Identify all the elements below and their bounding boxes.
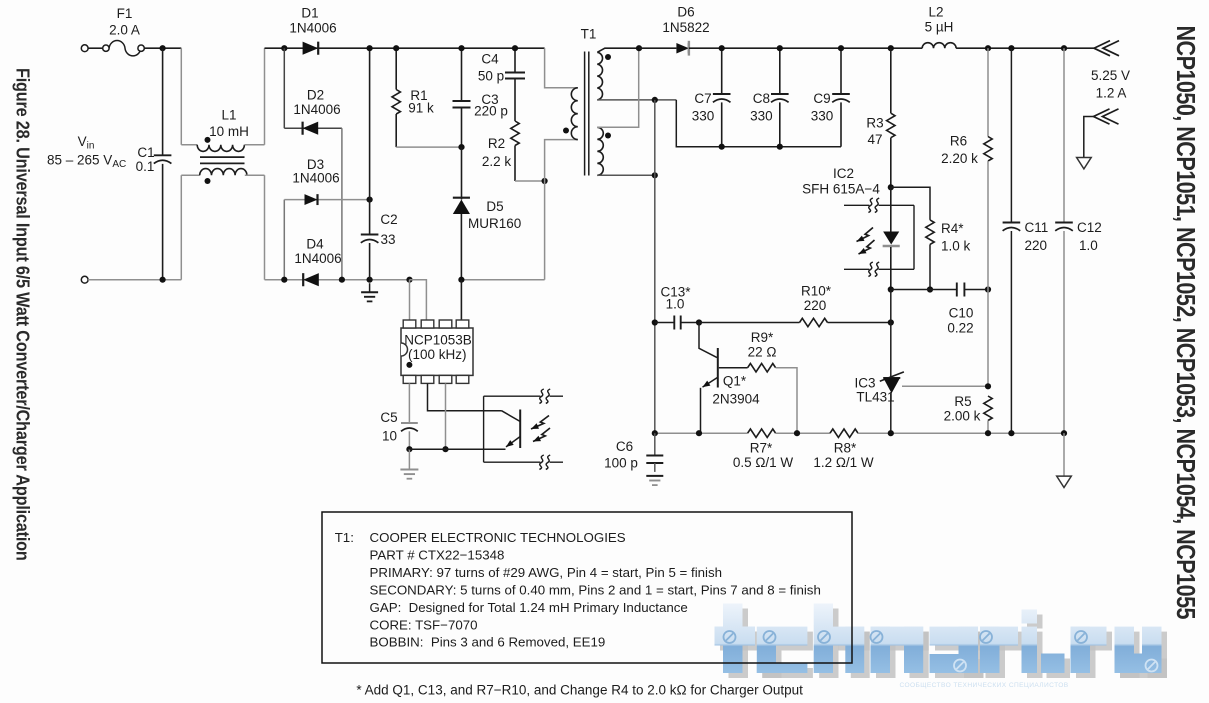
svg-text:5.25 V: 5.25 V (1091, 68, 1130, 83)
resistor R4* 1.0k (926, 220, 934, 244)
svg-text:R7*: R7* (750, 440, 773, 455)
svg-text:Q1*: Q1* (723, 374, 747, 389)
node bottom rail at Q1 emitter (696, 430, 702, 436)
wire jog to IC pin2 (410, 280, 427, 320)
svg-text:220: 220 (804, 298, 827, 313)
opto package edge left vertical (transistor side) (483, 396, 485, 462)
wire secondary top rail to D6 (639, 47, 676, 49)
wire input bottom to L1 lower-left (88, 279, 181, 281)
wire bus+ rail corner down to primary top (545, 48, 578, 88)
node C13/Q1 collector/R10 (696, 319, 702, 325)
svg-text:C6: C6 (616, 439, 633, 454)
pin 1 dot NCP1053B (406, 362, 412, 368)
wire R9 right down to bottom rail (776, 368, 797, 434)
svg-text:5 µH: 5 µH (925, 20, 954, 35)
svg-text:1N4006: 1N4006 (289, 21, 336, 36)
wire drain row to D5 anode and IC drain pin (461, 279, 544, 281)
node AC2 at D3 branch (281, 277, 287, 283)
svg-text:R9*: R9* (751, 330, 774, 345)
wire Q1 emitter down to bottom rail (700, 388, 702, 433)
wire Q1 base to R9 (719, 367, 748, 369)
node: C1 bottom junction (160, 277, 166, 283)
diode D6 1N5822 (676, 43, 689, 54)
svg-text:C10: C10 (949, 306, 974, 321)
node clamp (R1/C3/D5) (458, 144, 464, 150)
node bottom rail at TL431 (888, 430, 894, 436)
svg-text:1N4006: 1N4006 (294, 251, 341, 266)
svg-text:330: 330 (692, 108, 715, 123)
svg-text:MUR160: MUR160 (468, 216, 521, 231)
fuse F1 (103, 45, 109, 51)
wire rail R8 to output return (858, 432, 1064, 434)
wire return down to chassis triangle (1063, 433, 1065, 476)
svg-text:IC2: IC2 (833, 166, 854, 181)
IC pins top (403, 320, 416, 328)
node C12 top (1061, 45, 1067, 51)
wire D2 row (284, 127, 342, 129)
svg-text:2.0 A: 2.0 A (109, 23, 140, 38)
svg-text:10: 10 (382, 429, 397, 444)
node C2 top on bus+ rail (367, 45, 373, 51)
node C3 top on bus+ (458, 45, 464, 51)
svg-text:NCP1053B: NCP1053B (404, 332, 472, 347)
wire L1 upper-right up to AC1 rail (264, 175, 266, 280)
capacitor C9 330 (840, 48, 842, 94)
wire R10 row (699, 322, 800, 324)
node C11 top (1008, 45, 1014, 51)
svg-text:33: 33 (380, 232, 395, 247)
chassis return triangle (floating) (1077, 158, 1092, 169)
node bottom rail at R9 branch (794, 430, 800, 436)
input terminal bottom (neutral) (81, 276, 88, 283)
ground (C6) (646, 475, 663, 477)
svg-text:D4: D4 (306, 237, 324, 252)
svg-text:10 mH: 10 mH (209, 124, 249, 139)
svg-text:100 p: 100 p (604, 456, 638, 471)
opto collector diagonal (502, 411, 521, 422)
node R10 right on x891 vertical (888, 319, 894, 325)
svg-text:F1: F1 (117, 6, 133, 21)
transformer T1 secondary winding 2 (597, 127, 603, 175)
svg-text:50 p: 50 p (478, 69, 504, 84)
resistor R9* 22 ohm (748, 364, 776, 372)
wire bottom AC2/minus row with D4 (265, 279, 410, 281)
node minus rail at IC pin1 (406, 277, 412, 283)
resistor R2 2.2k (511, 121, 519, 145)
light arrows IC2 LED (857, 228, 874, 242)
node C9 top (838, 45, 844, 51)
opto package edge top (LED side) (844, 204, 914, 206)
svg-text:TL431: TL431 (856, 390, 894, 405)
capacitor C2 bus electrolytic (369, 48, 371, 234)
node: AC line / C1 top junction (160, 45, 166, 51)
node R3 bottom / opto anode (888, 184, 894, 190)
wire sec1 bottom to return node (597, 99, 676, 101)
svg-text:T1: T1 (581, 27, 597, 42)
node sec tops on rail (636, 45, 642, 51)
svg-text:2N3904: 2N3904 (712, 391, 760, 406)
wire R1 bottom to clamp node (396, 146, 461, 148)
wire IC pin to emitter row (445, 383, 447, 449)
svg-text:R8*: R8* (834, 440, 857, 455)
svg-text:0.22: 0.22 (947, 321, 973, 336)
svg-text:SECONDARY: 5 turns of 0.40 mm,: SECONDARY: 5 turns of 0.40 mm, Pins 2 an… (370, 582, 821, 597)
inductor L1 common-mode choke upper winding (181, 144, 197, 146)
svg-text:COOPER ELECTRONIC TECHNOLOGIES: COOPER ELECTRONIC TECHNOLOGIES (370, 530, 626, 545)
svg-text:C4: C4 (481, 52, 499, 67)
inductor L1 core lines (200, 156, 245, 158)
wire fuse to C1 node (144, 47, 181, 49)
svg-text:1N4006: 1N4006 (293, 102, 340, 117)
inductor L2 5uH (922, 43, 956, 49)
svg-text:D5: D5 (486, 199, 503, 214)
capacitor C1 (162, 48, 164, 155)
diode D4 1N4006 (303, 273, 319, 286)
capacitor C8 330 (779, 48, 781, 94)
svg-text:D6: D6 (677, 5, 694, 20)
opto package edge right vertical (913, 205, 915, 269)
node D3 cathode at C2 bus vertical (367, 197, 373, 203)
svg-text:NCP1050, NCP1051, NCP1052, NCP: NCP1050, NCP1051, NCP1052, NCP1053, NCP1… (1170, 26, 1199, 620)
phase dot L1 upper (205, 137, 211, 143)
wire C10 row (891, 289, 957, 291)
wire emitter row (409, 448, 505, 450)
capacitor C4 50p (514, 48, 516, 72)
transformer T1 core (584, 52, 586, 176)
svg-text:220 p: 220 p (474, 104, 508, 119)
node LED cathode row at x891 (888, 286, 894, 292)
opto package edge bottom (LED side) (844, 268, 914, 270)
wire L2 to output terminal (956, 47, 1094, 49)
svg-text:D1: D1 (301, 6, 318, 21)
svg-text:R3: R3 (866, 116, 883, 131)
wire input to fuse (88, 47, 103, 49)
wire down to L1 upper-left (180, 48, 182, 145)
svg-text:PRIMARY: 97 turns of #29 AWG,: PRIMARY: 97 turns of #29 AWG, Pin 4 = st… (370, 565, 723, 580)
transistor Q1 emitter with arrow (703, 377, 718, 387)
wire drain down to IC pin4 (460, 280, 462, 320)
transistor Q1 base bar (717, 348, 719, 388)
svg-text:22 Ω: 22 Ω (748, 344, 777, 359)
resistor R7* 0.5 ohm (748, 429, 776, 437)
node R1 top on bus+ (393, 45, 399, 51)
transformer T1 secondary winding 1 (597, 52, 602, 100)
IC3 TL431 cathode bar and flag (883, 377, 900, 379)
svg-text:C11: C11 (1025, 220, 1049, 235)
svg-text:R2: R2 (488, 136, 505, 151)
phase dot T1 secondary 1 (605, 54, 611, 60)
wire IC pin to C5 (408, 383, 410, 423)
wire R3 node to R4 top (891, 187, 930, 220)
svg-text:1.0: 1.0 (666, 297, 685, 312)
chassis return triangle (bottom) (1057, 476, 1072, 487)
svg-text:C7: C7 (694, 91, 711, 106)
svg-text:0.1: 0.1 (136, 159, 155, 174)
node C13 left on return vertical (652, 319, 658, 325)
svg-text:C1: C1 (137, 145, 154, 160)
T1 specification box (322, 512, 852, 663)
capacitor C5 10 (401, 422, 418, 424)
svg-text:1.0: 1.0 (1079, 238, 1098, 253)
wire top rail AC1 to D1 and bus+ (265, 47, 545, 49)
svg-text:SFH 615A−4: SFH 615A−4 (802, 182, 880, 197)
node bottom rail at return vertical (652, 430, 658, 436)
capacitor C3 220p (461, 48, 463, 101)
wire up to L1 lower-left (180, 175, 182, 280)
opto package edge bottom (transistor side) (484, 461, 563, 463)
capacitor C7 330 (721, 48, 723, 94)
svg-text:1.0 k: 1.0 k (941, 239, 971, 254)
svg-text:C9: C9 (813, 91, 830, 106)
resistor R10* 220 (800, 318, 828, 326)
wire primary bottom to drain row (545, 140, 578, 280)
opto emitter diagonal with arrow (506, 437, 520, 447)
resistor R6 2.20k (987, 48, 989, 136)
phase dot T1 secondary 2 (605, 133, 611, 139)
node C4 top on bus+ (512, 45, 518, 51)
svg-text:330: 330 (750, 108, 773, 123)
node emitter row at pin (442, 446, 448, 452)
svg-text:* Add Q1, C13, and R7−R10, and: * Add Q1, C13, and R7−R10, and Change R4… (356, 683, 803, 698)
svg-text:330: 330 (811, 108, 834, 123)
ground primary (under C2) (369, 283, 371, 292)
diode D1 1N4006 (303, 42, 319, 55)
wire L1 lower-right down to AC2 row (264, 48, 266, 145)
svg-text:1N5822: 1N5822 (662, 20, 709, 35)
phase dot L1 lower (205, 178, 211, 184)
node C8 bottom (777, 144, 783, 150)
svg-text:1N4006: 1N4006 (292, 171, 339, 186)
IC3 TL431 body (883, 378, 900, 393)
svg-text:GAP: Designed for Total 1.24: GAP: Designed for Total 1.24 mH Primary … (370, 600, 688, 615)
svg-text:C8: C8 (753, 91, 770, 106)
wire return connector to chassis triangle (1084, 117, 1094, 158)
IC U1 NCP1053B body (401, 328, 473, 375)
svg-text:T1:: T1: (335, 530, 354, 545)
transistor Q1 2N3904 collector (699, 323, 717, 358)
svg-text:R10*: R10* (801, 284, 832, 299)
node R6 top (985, 45, 991, 51)
svg-text:D2: D2 (307, 88, 324, 103)
node C7 bottom (719, 144, 725, 150)
node secondary return (sec1 bottom) (652, 97, 658, 103)
svg-text:IC3: IC3 (854, 376, 875, 391)
node AC1 / D2 branch (281, 45, 287, 51)
optocoupler IC2 LED (890, 187, 892, 231)
wire TL431 ref to R5/R6 node (902, 385, 988, 387)
svg-text:R4*: R4* (941, 221, 964, 236)
svg-text:C2: C2 (380, 212, 397, 227)
wire D3 row to bus+ vertical (284, 199, 369, 201)
node drain at D5 anode / IC pin (458, 277, 464, 283)
node bottom rail at C11 (1008, 430, 1014, 436)
svg-text:91 k: 91 k (408, 101, 434, 116)
svg-text:PART # CTX22−15348: PART # CTX22−15348 (370, 547, 505, 562)
node secondary return (sec2 bottom) (652, 172, 658, 178)
wire AC2 up to D3 row (283, 200, 285, 280)
node minus rail at D2 branch (339, 277, 345, 283)
wire sec2 top up to output rail (597, 48, 638, 127)
svg-text:0.5 Ω/1 W: 0.5 Ω/1 W (733, 455, 794, 470)
node R3 top on rail (888, 45, 894, 51)
wire secondary return vertical (654, 100, 656, 433)
svg-text:C5: C5 (380, 410, 397, 425)
svg-text:СООБЩЕСТВО ТЕХНИЧЕСКИХ СПЕЦИАЛ: СООБЩЕСТВО ТЕХНИЧЕСКИХ СПЕЦИАЛИСТОВ (899, 682, 1068, 689)
svg-text:47: 47 (867, 132, 882, 147)
resistor R5 2.00k (984, 396, 992, 420)
svg-text:(100 kHz): (100 kHz) (408, 347, 467, 362)
svg-text:220: 220 (1025, 238, 1048, 253)
wire minus rail to IC pin1 down (409, 280, 411, 320)
svg-text:1.2 A: 1.2 A (1096, 85, 1127, 100)
node bottom rail at R5 (985, 430, 991, 436)
output connector chevrons return (1094, 109, 1110, 124)
node ref R5/R6 (985, 383, 991, 389)
wire return elbow to C7/C8/C9 bottom rail (676, 100, 841, 147)
diode D2 1N4006 (303, 122, 319, 135)
wire R2 bottom to drain vertical (515, 180, 545, 182)
wire sec1 top to output rail (597, 48, 639, 52)
wire secondary bottom rail (655, 432, 748, 434)
output connector chevrons + (1094, 41, 1110, 56)
input terminal top (line) (81, 45, 88, 52)
wire D2 anode down to minus rail (341, 128, 343, 280)
diode D3 1N4006 (305, 194, 318, 205)
svg-text:L1: L1 (221, 108, 236, 123)
svg-text:L2: L2 (928, 5, 943, 20)
resistor R3 47 (890, 48, 892, 113)
node bottom rail at C12 / return (1061, 430, 1067, 436)
node R2/drain vertical (542, 178, 548, 184)
wire IC pin to opto collector (428, 383, 502, 410)
capacitor C12 1.0 (1063, 48, 1065, 222)
node C5 bottom / emitter row (406, 446, 412, 452)
capacitor C6 100p (654, 433, 656, 455)
wire rail R7-R8 (776, 432, 830, 434)
node minus rail at C2 bottom (367, 277, 373, 283)
svg-text:2.2 k: 2.2 k (482, 154, 512, 169)
wire TL431 anode to bottom rail (890, 393, 892, 433)
wire AC1 down to D2 row (283, 48, 285, 128)
svg-text:BOBBIN: Pins 3 and 6 Removed,: BOBBIN: Pins 3 and 6 Removed, EE19 (370, 635, 606, 650)
svg-text:2.00 k: 2.00 k (944, 409, 981, 424)
light arrows into phototransistor (531, 416, 549, 430)
transformer T1 primary winding (571, 88, 577, 140)
svg-text:C12: C12 (1077, 220, 1102, 235)
svg-text:2.20 k: 2.20 k (941, 151, 978, 166)
inductor L1 lower winding (181, 174, 199, 176)
svg-text:R6: R6 (950, 134, 967, 149)
capacitor C10 0.22 (956, 283, 958, 297)
svg-text:1.2 Ω/1 W: 1.2 Ω/1 W (813, 455, 874, 470)
wire LED cathode node down to TL431 (890, 290, 892, 378)
ground (C5) (408, 449, 410, 469)
wire sec2 bottom to return vertical (597, 174, 655, 176)
opto package edge top (transistor side) (484, 395, 563, 397)
capacitor C13* 1.0 (655, 322, 675, 324)
node R4 bottom (927, 286, 933, 292)
svg-text:Figure 28. Universal Input 6/5: Figure 28. Universal Input 6/5 Watt Conv… (12, 68, 33, 561)
diode D5 MUR160 (461, 147, 463, 199)
node C10 right at R6/R5 vertical (985, 286, 991, 292)
phase dot T1 primary (563, 128, 569, 134)
capacitor C11 220 (1010, 48, 1012, 222)
IC pins bottom (403, 375, 416, 383)
resistor R1 91k (395, 48, 397, 89)
node C8 top (777, 45, 783, 51)
resistor R8* 1.2 ohm (830, 429, 858, 437)
svg-text:CORE: TSF−7070: CORE: TSF−7070 (370, 617, 478, 632)
wire D6 cathode along +5V rail to L2 (689, 47, 922, 49)
opto IC2 phototransistor base bar (519, 410, 521, 449)
node C7 top (719, 45, 725, 51)
svg-text:R5: R5 (954, 394, 971, 409)
